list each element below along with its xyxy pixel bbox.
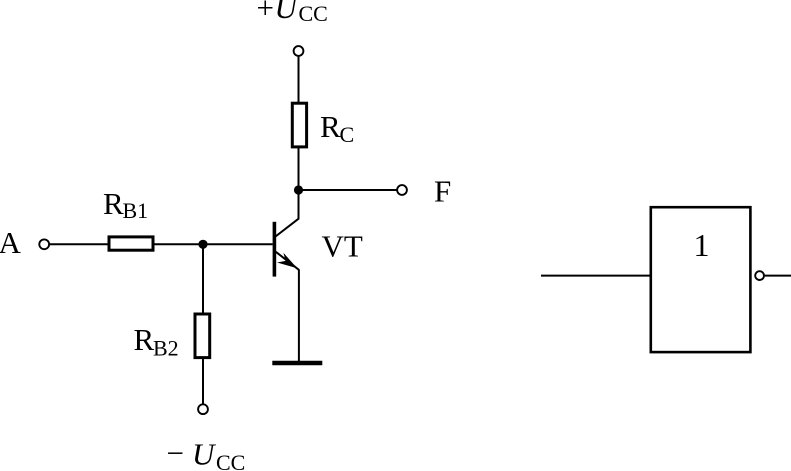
- wire RC to collector node: [298, 148, 300, 190]
- emitter arrow: [277, 253, 297, 268]
- wire RB2 to -UCC terminal: [202, 358, 204, 403]
- wire base node down to RB2: [202, 244, 204, 314]
- resistor RB1: [109, 237, 153, 250]
- emitter diagonal: [276, 252, 299, 270]
- node collector junction: [294, 185, 303, 194]
- gate inversion bubble: [755, 271, 764, 280]
- resistor RC: [292, 103, 306, 147]
- node base junction: [198, 240, 207, 249]
- wire collector node to F terminal: [299, 189, 397, 191]
- terminal -UCC: [198, 404, 208, 414]
- wire collector vertical: [298, 190, 300, 219]
- wire +UCC terminal to RC: [298, 57, 300, 103]
- ground: [272, 361, 322, 365]
- svg-text:A: A: [0, 225, 22, 260]
- wire emitter vertical: [298, 270, 300, 362]
- wire gate output: [765, 275, 791, 277]
- svg-text:+UCC: +UCC: [257, 0, 328, 26]
- wire gate input: [541, 275, 650, 277]
- terminal F: [397, 185, 407, 195]
- wire A terminal to RB1: [50, 243, 109, 245]
- svg-text:F: F: [434, 173, 451, 208]
- svg-text:VT: VT: [322, 229, 363, 264]
- transistor VT: [274, 190, 299, 362]
- wire RB1 to base node: [153, 243, 203, 245]
- terminal A: [39, 239, 49, 249]
- base bar: [273, 222, 277, 277]
- svg-text:1: 1: [694, 227, 710, 263]
- terminal +UCC: [294, 46, 304, 56]
- wire base node to transistor base: [203, 243, 273, 245]
- resistor RB2: [195, 314, 210, 358]
- collector diagonal: [276, 218, 299, 236]
- gate U1 NOT symbol body: [651, 207, 751, 352]
